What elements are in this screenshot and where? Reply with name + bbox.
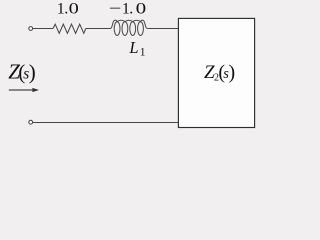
value label -1.0 [109, 1, 147, 18]
wire bottom [33, 122, 178, 124]
svg-text:−: − [109, 1, 122, 18]
svg-text:.: . [129, 1, 133, 18]
svg-text:0: 0 [69, 1, 79, 18]
terminal top-left [29, 27, 33, 31]
resistor R (1.0) [53, 24, 86, 33]
node label Z(s) [8, 60, 36, 85]
arrow [9, 89, 34, 91]
svg-text:L: L [128, 38, 138, 57]
wire [147, 28, 178, 30]
wire [86, 28, 111, 30]
svg-text:1: 1 [140, 47, 146, 59]
svg-text:): ) [29, 60, 36, 84]
inductor L1 (-1.0) [110, 20, 147, 35]
svg-text:.: . [64, 1, 68, 18]
wire [33, 28, 53, 30]
terminal bottom-left [29, 120, 33, 124]
box label Z2(s) [204, 62, 235, 84]
svg-text:): ) [229, 62, 236, 84]
box Z2(s) [178, 18, 254, 127]
value label 1.0 [57, 1, 79, 18]
svg-text:0: 0 [136, 1, 147, 18]
